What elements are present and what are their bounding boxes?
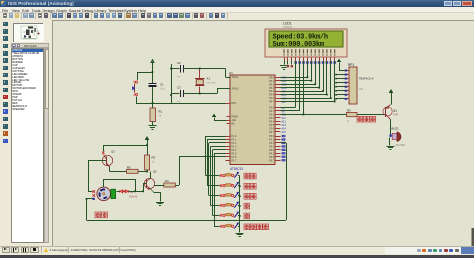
- svg-text:C2: C2: [177, 61, 181, 65]
- svg-text:BUZZER: BUZZER: [396, 145, 406, 147]
- svg-text:1k: 1k: [347, 120, 350, 123]
- svg-text:P2.4: P2.4: [269, 121, 274, 123]
- svg-text:LCD1: LCD1: [283, 22, 292, 26]
- svg-text:P0.6: P0.6: [269, 98, 274, 100]
- svg-text:A15: A15: [282, 131, 287, 134]
- svg-text:P1.6: P1.6: [232, 157, 237, 159]
- svg-text:P2.3: P2.3: [269, 118, 274, 120]
- svg-text:R4: R4: [165, 179, 169, 183]
- svg-text:P1.3: P1.3: [232, 146, 237, 148]
- svg-text:CRYSTAL: CRYSTAL: [206, 82, 217, 85]
- svg-text:P2.0: P2.0: [269, 108, 274, 110]
- svg-text:C3: C3: [177, 85, 181, 89]
- svg-text:P3.0: P3.0: [269, 136, 274, 138]
- svg-text:P1.7: P1.7: [232, 160, 237, 162]
- svg-text:X1: X1: [207, 77, 211, 81]
- svg-text:P0.1: P0.1: [269, 81, 274, 83]
- svg-text:P1.1: P1.1: [232, 140, 237, 142]
- svg-text:PSEN: PSEN: [232, 117, 239, 119]
- svg-text:P0.5: P0.5: [269, 95, 274, 97]
- svg-text:1k: 1k: [159, 115, 162, 118]
- svg-text:R5: R5: [127, 165, 131, 169]
- svg-text:Q3: Q3: [111, 150, 115, 154]
- svg-text:Sum:000.003km: Sum:000.003km: [273, 41, 324, 49]
- svg-text:P2.6: P2.6: [269, 128, 274, 130]
- svg-text:P0.7: P0.7: [269, 102, 274, 104]
- svg-text:P3.4: P3.4: [269, 150, 274, 152]
- svg-text:R2: R2: [347, 108, 351, 112]
- svg-text:R1: R1: [159, 110, 163, 114]
- svg-text:P0.4: P0.4: [269, 91, 274, 93]
- svg-text:P1.0: P1.0: [232, 136, 237, 138]
- svg-text:Q2: Q2: [153, 169, 157, 173]
- svg-text:10uf: 10uf: [160, 88, 165, 91]
- svg-text:P1.4: P1.4: [232, 150, 237, 152]
- svg-text:AT89C51: AT89C51: [230, 167, 243, 171]
- svg-text:P3.1: P3.1: [269, 140, 274, 142]
- svg-text:P3.3: P3.3: [269, 146, 274, 148]
- svg-text:XTAL2: XTAL2: [232, 88, 240, 91]
- svg-text:1N4148: 1N4148: [129, 197, 138, 199]
- svg-text:EA: EA: [232, 123, 236, 126]
- svg-text:P0.3: P0.3: [269, 88, 274, 90]
- svg-text:10k: 10k: [359, 88, 364, 91]
- svg-text:P0.0: P0.0: [269, 77, 274, 79]
- svg-text:P0.2: P0.2: [269, 84, 274, 86]
- svg-text:P2.1: P2.1: [269, 111, 274, 113]
- svg-text:Q1: Q1: [393, 109, 397, 113]
- svg-text:cap: cap: [177, 76, 181, 78]
- svg-text:P3.5: P3.5: [269, 153, 274, 155]
- svg-text:U1: U1: [229, 71, 233, 75]
- svg-text:PNP: PNP: [393, 114, 398, 117]
- svg-text:P2.2: P2.2: [269, 115, 274, 117]
- svg-text:P1.2: P1.2: [232, 143, 237, 145]
- svg-text:RESPACK-8: RESPACK-8: [359, 77, 374, 81]
- svg-text:XTAL1: XTAL1: [232, 76, 240, 79]
- svg-text:P2.7: P2.7: [269, 132, 274, 134]
- svg-text:1k: 1k: [152, 161, 155, 164]
- svg-text:P3.7: P3.7: [269, 160, 274, 162]
- svg-text:R3: R3: [152, 156, 156, 160]
- svg-text:RST: RST: [232, 103, 237, 105]
- svg-text:P1.5: P1.5: [232, 153, 237, 155]
- svg-text:BUZ1: BUZ1: [392, 126, 400, 130]
- svg-text:P3.2: P3.2: [269, 143, 274, 145]
- svg-text:RP1: RP1: [348, 63, 354, 67]
- svg-text:C1: C1: [160, 83, 164, 87]
- svg-text:LM016L: LM016L: [283, 25, 293, 29]
- svg-text:P2.5: P2.5: [269, 125, 274, 127]
- svg-text:cap: cap: [177, 101, 181, 103]
- svg-text:P3.6: P3.6: [269, 157, 274, 159]
- svg-text:ALE: ALE: [232, 119, 237, 122]
